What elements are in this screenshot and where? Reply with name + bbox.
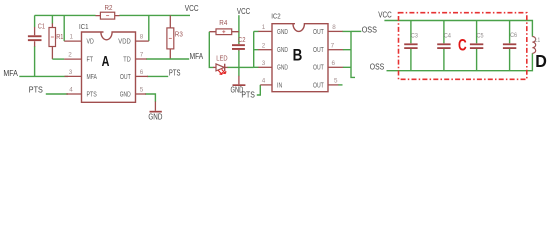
svg-text:R1: R1 [56,34,63,41]
wire: rail drop to pin 1 [63,15,65,41]
svg-text:OSS: OSS [362,24,378,34]
svg-text:8: 8 [140,34,144,41]
wire: C1 bottom to MFA net [34,46,36,76]
svg-text:R3: R3 [175,32,183,39]
dashed highlight box [399,13,527,80]
svg-text:GND: GND [277,29,288,36]
svg-text:OSS: OSS [370,62,385,72]
wire: C1 top lead from rail [34,15,36,27]
wire: C2 bottom to junction and down [238,51,240,77]
wire: top VCC rail right segment to VCC label [119,14,190,16]
wire: IC2 gnd bus vertical [253,31,255,67]
svg-text:MFA: MFA [190,51,204,61]
svg-text:PTS: PTS [87,92,98,99]
svg-text:LED: LED [216,55,227,62]
svg-text:7: 7 [140,52,144,59]
svg-text:D: D [535,51,547,71]
wire: VCC drop to C2 / R4 [238,15,240,44]
svg-text:VD: VD [87,39,94,46]
wire: pins 8-7-6 out bus [343,31,356,77]
svg-text:5: 5 [140,87,144,94]
wire: pin 5 stub end [338,84,342,86]
svg-text:2: 2 [262,42,266,49]
wire: MFA to pin 3 [19,75,68,77]
capacitor C6 [503,21,517,71]
svg-text:IC2: IC2 [271,12,281,21]
op-amp U1 / IC1 body [79,22,136,102]
svg-text:C5: C5 [477,32,484,39]
wire: pin 8 to OSS label [351,30,361,32]
wire: R1 top lead from rail [51,15,53,23]
svg-text:1: 1 [262,24,266,31]
wire: pin 8 up to rail [148,15,150,41]
svg-text:IN: IN [277,82,282,89]
capacitor C2 [232,37,246,51]
resistor R4 [209,20,239,35]
svg-text:GND: GND [277,65,288,72]
resistor R3 [167,15,183,59]
pin 7 OUT [313,42,343,54]
svg-text:GND: GND [277,47,288,54]
svg-text:5: 5 [334,78,338,85]
LED D1 [213,55,228,74]
svg-text:GND: GND [148,113,162,122]
svg-text:MFA: MFA [3,68,18,78]
pin 8 VDD [118,34,149,46]
svg-text:B: B [293,47,303,65]
svg-text:L1: L1 [535,37,541,44]
svg-text:MFA: MFA [87,74,98,81]
svg-text:R2: R2 [105,5,113,12]
inductor L1 [532,37,540,54]
svg-text:C3: C3 [411,32,418,39]
svg-text:VCC: VCC [185,3,199,13]
capacitor C4 [437,21,451,71]
svg-text:7: 7 [331,42,335,49]
svg-text:PTS: PTS [29,85,43,95]
pin 1 GND [258,24,288,36]
svg-text:PTS: PTS [169,67,181,77]
svg-text:4: 4 [262,78,266,85]
wire: bottom OSS rail [387,53,533,70]
LED emission arrows [218,69,226,74]
capacitor C3 [404,21,418,71]
pin 8 OUT [313,24,343,36]
pin 2 FT [64,52,94,64]
svg-text:C: C [458,36,467,54]
pin 6 OUT [120,69,148,81]
svg-text:OUT: OUT [313,47,324,54]
svg-text:A: A [102,54,110,70]
wire: GND junction to IC2 gnd bus [239,66,254,68]
svg-text:1: 1 [70,34,74,41]
svg-text:8: 8 [332,24,336,31]
svg-text:OUT: OUT [313,82,324,89]
resistor R2 [96,5,120,19]
ground (below IC1) [148,102,162,122]
svg-text:C4: C4 [444,32,451,39]
wire: R4 left lead down to LED [209,32,213,68]
wire: LED cathode to GND junction [228,66,239,68]
pin 5 GND [120,87,146,99]
svg-text:6: 6 [332,60,336,67]
svg-text:4: 4 [69,87,73,94]
wire: pin 6 to PTS label (right) [147,75,168,77]
svg-text:3: 3 [262,60,266,67]
svg-text:6: 6 [140,69,144,76]
wire: top VCC rail left segment [35,14,96,16]
svg-text:3: 3 [69,69,73,76]
op-amp U2 / IC2 body [271,12,328,92]
capacitor C1 [28,23,45,46]
svg-text:C6: C6 [510,32,517,39]
capacitor C5 [470,21,484,71]
pin 3 MFA [65,69,98,81]
pin 4 PTS [66,87,97,99]
wire: bus taps to pins 1-3 [254,31,259,67]
svg-text:FT: FT [87,57,94,64]
svg-text:OUT: OUT [120,74,131,81]
pin 7 TD [123,52,146,64]
svg-text:C1: C1 [38,23,45,30]
svg-text:C2: C2 [238,37,246,44]
pin 4 IN [260,78,282,90]
svg-text:PTS: PTS [241,90,255,100]
ground (middle) [231,76,246,95]
resistor R1 [49,23,63,59]
svg-text:GND: GND [120,92,131,99]
svg-text:OUT: OUT [313,65,324,72]
svg-text:VCC: VCC [237,6,250,16]
svg-text:TD: TD [123,57,130,64]
wire: PTS to pin 4 [46,93,68,95]
svg-text:VDD: VDD [118,39,130,46]
pin 1 VD [64,34,94,46]
svg-text:2: 2 [68,52,72,59]
svg-text:R4: R4 [219,20,227,27]
wire: pin 5 to ground [145,94,155,102]
wire: R1 bottom to pin 2 [52,58,64,60]
pin 2 GND [258,42,288,54]
svg-text:IC1: IC1 [79,22,89,31]
wire: pin 7 to MFA label (right) [146,58,189,60]
wire: PTS to pin 4 (IN) [257,85,261,95]
pin 6 OUT [313,60,343,72]
svg-text:OUT: OUT [313,29,324,36]
svg-text:VCC: VCC [378,10,392,20]
wire: top VCC rail [384,21,532,37]
pin 3 GND [258,60,288,72]
pin 5 OUT [313,78,339,90]
